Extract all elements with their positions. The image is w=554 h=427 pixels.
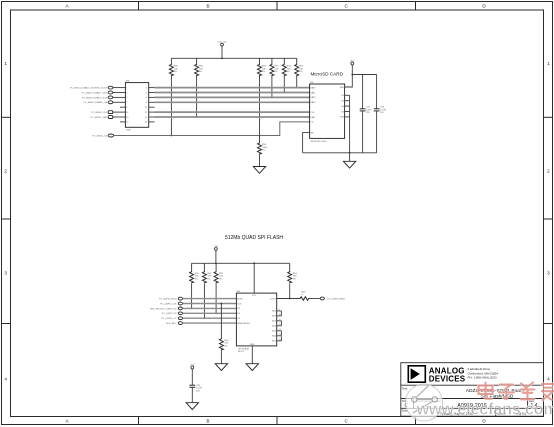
wire bus D1 (155, 92, 310, 94)
svg-text:16V: 16V (380, 112, 384, 114)
wire R58 to ground (259, 155, 261, 167)
svg-text:DAT0: DAT0 (310, 86, 316, 89)
wire flash GND (251, 346, 253, 364)
svg-text:5%: 5% (274, 71, 277, 73)
svg-text:14: 14 (279, 334, 281, 336)
svg-text:10K: 10K (207, 276, 211, 278)
svg-text:2: 2 (4, 168, 7, 173)
svg-text:5%: 5% (219, 278, 222, 280)
wire pull-up rail (171, 57, 296, 59)
svg-text:SPI2_RDY: SPI2_RDY (166, 323, 177, 325)
svg-text:PC_QSPI0_CLK: PC_QSPI0_CLK (160, 303, 177, 305)
svg-text:3: 3 (547, 270, 550, 275)
port terminal PC_QSPI0_D2 (178, 307, 182, 310)
port terminal PC_QSPI0_MISO (320, 297, 324, 300)
svg-text:PH: 1-800-ANALOGD: PH: 1-800-ANALOGD (468, 376, 498, 380)
ground (flash) (246, 364, 258, 371)
svg-text:CLK: CLK (310, 112, 315, 114)
capacitor C53 (374, 75, 380, 153)
wire RDY (183, 322, 237, 324)
wire bus CMD (155, 116, 310, 118)
svg-text:PC_QSPI0_MISO: PC_QSPI0_MISO (328, 298, 346, 300)
svg-text:4: 4 (547, 376, 550, 381)
svg-text:5%: 5% (174, 71, 177, 73)
svg-text:10K: 10K (199, 68, 203, 70)
wire D3 (183, 312, 237, 314)
svg-text:PC_MSD0_D3/ADC_SS: PC_MSD0_D3/ADC_SS (83, 101, 107, 104)
svg-text:MOSI: MOSI (237, 298, 243, 300)
svg-text:5%: 5% (299, 71, 302, 73)
ground (CD pulldown) (253, 167, 265, 174)
svg-text:PC_MSD0_D1/ADC_SDO: PC_MSD0_D1/ADC_SDO (82, 91, 108, 94)
svg-text:10UF: 10UF (366, 109, 372, 111)
port terminal PC_QSPI0_D3 (178, 312, 182, 315)
svg-text:10K: 10K (262, 68, 266, 70)
port terminal PC_MSD0_CLK (108, 111, 113, 114)
svg-text:2: 2 (547, 168, 550, 173)
port terminal PC_MSD0_D3 (108, 101, 113, 104)
wire R67 to port (310, 298, 320, 300)
wire R63 to MISO net (289, 283, 291, 298)
connector J10 (113, 81, 155, 132)
svg-text:512Mb QUAD SPI FLASH: 512Mb QUAD SPI FLASH (225, 235, 283, 241)
capacitor C52 (360, 75, 366, 153)
svg-text:ADZS-SC594-SOM1 Board: ADZS-SC594-SOM1 Board (466, 388, 525, 394)
svg-text:PC_QSPI0_MOSI: PC_QSPI0_MOSI (159, 299, 177, 301)
svg-text:VCC: VCC (252, 295, 257, 297)
wire WP pin route (303, 133, 310, 153)
svg-text:5%: 5% (262, 71, 265, 73)
resistor R53 (270, 58, 274, 76)
MicroSD card socket J11 (310, 71, 345, 143)
wire R54 to D1 net (283, 76, 285, 93)
wire R51 to CMD net (196, 76, 198, 117)
svg-text:16V: 16V (196, 391, 200, 393)
svg-text:0.1UF: 0.1UF (380, 109, 387, 111)
port terminal PC_MSD0_D1 (108, 91, 113, 94)
svg-text:5%: 5% (287, 71, 290, 73)
svg-text:3: 3 (4, 270, 7, 275)
svg-text:12: 12 (279, 324, 281, 326)
wire CD net (114, 122, 310, 136)
svg-text:PC_MSD0_CD: PC_MSD0_CD (92, 135, 107, 137)
svg-text:PC_MSD0_CLK: PC_MSD0_CLK (91, 112, 107, 114)
svg-text:5%: 5% (207, 278, 210, 280)
svg-text:15: 15 (279, 339, 281, 341)
wire bus D2 (155, 96, 310, 98)
flash chip NC stubs (277, 311, 282, 341)
svg-text:10K: 10K (174, 68, 178, 70)
wire R52 down to CD net (259, 76, 261, 136)
Analog Devices logo (408, 366, 425, 382)
wire VDD pin to VCC (345, 75, 353, 88)
port terminal PC_MSD0_CD (108, 134, 114, 137)
svg-text:10K: 10K (299, 68, 303, 70)
title block table (401, 363, 544, 417)
wire R62 to D3 net (215, 283, 217, 313)
wire R50 to CD net (170, 76, 172, 136)
ground (R64) (215, 364, 227, 371)
ground (C55) (186, 403, 198, 410)
svg-text:1: 1 (547, 61, 550, 66)
power symbol VCC (decoupling) (191, 366, 194, 385)
svg-text:PC_MSD0_CMD: PC_MSD0_CMD (91, 117, 108, 119)
resistor R52 (258, 58, 262, 76)
svg-text:10K: 10K (195, 276, 199, 278)
svg-text:DAT3: DAT3 (310, 101, 316, 104)
svg-text:PC_QSPI0_CS: PC_QSPI0_CS (162, 318, 177, 320)
address block (468, 367, 499, 380)
svg-text:13: 13 (279, 329, 281, 331)
svg-text:SPI2_SEL1/PC_QSPI0_D2: SPI2_SEL1/PC_QSPI0_D2 (150, 308, 177, 310)
port terminal PC_MSD0_CMD (108, 116, 113, 119)
port terminal PC_QSPI0_CLK (178, 302, 182, 305)
svg-text:www.elecfans.com: www.elecfans.com (416, 400, 554, 418)
svg-text:CLK: CLK (237, 303, 242, 305)
wire bus D0 (155, 87, 310, 89)
resistor R55 (295, 58, 299, 76)
resistor R67 (series, horizontal) (299, 297, 310, 301)
svg-text:B: B (206, 419, 209, 424)
svg-text:VSS: VSS (340, 117, 345, 119)
wire socket shield pins to ground (345, 95, 350, 161)
svg-text:Title: Title (402, 386, 408, 390)
wire MISO net (277, 298, 299, 300)
svg-text:5%: 5% (195, 278, 198, 280)
svg-text:PC_MSD0_D2/ADC_SCK: PC_MSD0_D2/ADC_SCK (82, 96, 108, 99)
svg-text:MICROSD GND: MICROSD GND (311, 141, 327, 143)
svg-text:10K: 10K (293, 276, 297, 278)
svg-text:VDD: VDD (340, 87, 345, 89)
wire bus CLK (155, 111, 310, 113)
svg-text:10K: 10K (287, 68, 291, 70)
svg-text:MicroSD CARD: MicroSD CARD (311, 71, 344, 76)
watermark stamp (elecfans logo circle) (406, 384, 443, 421)
node rail/VCC junction (221, 57, 223, 59)
pin numbers (flash right side) (279, 309, 281, 341)
svg-text:1: 1 (4, 61, 7, 66)
ground (socket) (343, 161, 355, 168)
resistor R64 (CLK pulldown) (219, 304, 223, 351)
svg-text:0.1UF: 0.1UF (196, 388, 203, 390)
svg-text:VCC_SD: VCC_SD (218, 42, 227, 44)
svg-text:5%: 5% (199, 71, 202, 73)
svg-text:DOUT: DOUT (270, 298, 276, 300)
svg-text:RESET/HOLD: RESET/HOLD (237, 323, 250, 325)
capacitor C55 (189, 385, 195, 387)
port terminal PC_MSD0_D2 (108, 96, 113, 99)
port terminal PC_QSPI0_CS (178, 317, 182, 320)
wire R60 to D2 net (191, 283, 193, 308)
wire R61 to CS net (203, 283, 205, 318)
svg-text:B: B (206, 3, 209, 8)
port terminal PC_QSPI0_MOSI (178, 297, 182, 300)
svg-text:10: 10 (279, 314, 281, 316)
svg-text:5%: 5% (224, 346, 227, 348)
wire CS (183, 317, 237, 319)
svg-text:9: 9 (279, 309, 280, 311)
wire C55 to ground (191, 387, 193, 402)
svg-text:11: 11 (279, 319, 281, 321)
svg-text:CMD: CMD (310, 117, 315, 119)
svg-text:10K: 10K (224, 343, 228, 345)
svg-text:PC_QSPI0_D3: PC_QSPI0_D3 (162, 313, 177, 315)
svg-text:BOOT: BOOT (238, 351, 245, 353)
port terminal SPI2_RDY (178, 322, 182, 325)
svg-text:10K: 10K (219, 276, 223, 278)
wire bottom ground rail (303, 152, 377, 154)
resistor R63 (288, 263, 292, 283)
power symbol VCC (socket) (351, 62, 354, 74)
resistor R61 (202, 263, 206, 283)
svg-text:100K: 100K (262, 147, 268, 149)
svg-text:5%: 5% (262, 150, 265, 152)
wire VCC to flash chip (253, 263, 255, 293)
wire flash pull-up rail (192, 262, 290, 264)
port terminal PC_MSD0_D0 (108, 86, 113, 89)
svg-text:GND: GND (250, 344, 255, 346)
wire MOSI (183, 298, 237, 300)
svg-text:10K: 10K (274, 68, 278, 70)
wire bus D3 (155, 101, 310, 103)
svg-text:DAT2: DAT2 (310, 96, 316, 99)
resistor R54 (282, 58, 286, 76)
wire CLK (183, 303, 237, 305)
resistor R51 (195, 58, 199, 76)
wire R55 to D0 net (296, 76, 298, 88)
svg-text:SPI FLASH: SPI FLASH (238, 347, 250, 350)
wire R53 to D2 net (271, 76, 273, 97)
flash chip U11 (236, 291, 276, 353)
power symbol VCC_MSD (top rail) (221, 43, 224, 58)
svg-text:GND: GND (126, 130, 131, 132)
svg-text:PC_MSD0_D0/ADC_SDI/SPI2_DOUT: PC_MSD0_D0/ADC_SDI/SPI2_DOUT (70, 87, 108, 90)
resistor R62 (214, 263, 218, 283)
svg-text:25V: 25V (366, 112, 370, 114)
wire D2 (183, 307, 237, 309)
svg-text:DEVICES: DEVICES (429, 375, 466, 384)
resistor R58 (CD pulldown) (258, 136, 262, 155)
power symbol VCC_FLASH (215, 248, 218, 264)
wire cap rail (352, 74, 376, 76)
svg-text:5%: 5% (293, 278, 296, 280)
resistor R60 (190, 263, 194, 283)
svg-text:DAT1: DAT1 (310, 91, 316, 94)
svg-text:4: 4 (4, 376, 7, 381)
wire R64 to ground (220, 350, 222, 363)
resistor R50 (169, 58, 173, 76)
